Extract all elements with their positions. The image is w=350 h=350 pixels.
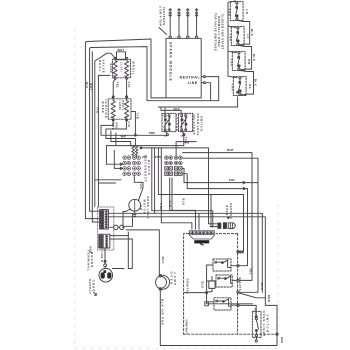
wire : L4 step <box>161 148 192 229</box>
wire : ground dashed bottom <box>184 333 276 335</box>
wire : relay left bus <box>207 265 253 304</box>
svg-text:TAN: TAN <box>229 59 233 67</box>
svg-text:IGNITOR: IGNITOR <box>104 100 108 119</box>
svg-text:PRP: PRP <box>149 131 155 135</box>
svg-text:6A: 6A <box>180 134 183 137</box>
connector : terminal board upper block <box>100 210 109 229</box>
svg-text:OVEN: OVEN <box>225 205 229 216</box>
svg-text:RR: RR <box>247 59 251 65</box>
wire : zigzag feed to WHT box <box>95 53 117 206</box>
svg-text:YEL: YEL <box>115 82 119 89</box>
wire : black loop 3 <box>239 70 253 95</box>
svg-text:GRN/WHT: GRN/WHT <box>185 320 188 335</box>
cable : ribbon black bar <box>194 240 209 243</box>
wire : ignitor pin lead 3 <box>187 9 189 36</box>
svg-text:UNLOCKED: UNLOCKED <box>192 114 196 136</box>
resistor : bake/broil ignitors box <box>108 99 131 119</box>
wire : RED zigzag <box>239 293 277 305</box>
svg-text:BLK: BLK <box>252 54 256 62</box>
wire : relay outputs <box>231 266 237 306</box>
wire : feed to lock switches <box>161 107 181 113</box>
lamp : oven lamp <box>156 275 170 289</box>
wire : RF to black bus down <box>158 97 237 107</box>
wire : black loop 1 <box>237 20 249 45</box>
wire : ignitor pin lead 1 <box>169 9 171 36</box>
motor : door lock motor <box>129 199 141 211</box>
wire : humps line <box>110 226 123 228</box>
pin : spark module pin 1 <box>169 36 171 38</box>
wire : inner loop W2 <box>90 47 219 212</box>
wire : pink dotted frame bottom <box>76 347 278 349</box>
wire : staircase C <box>111 131 131 146</box>
wire : r4 <box>183 174 248 266</box>
wire : valve to ignitor right <box>126 79 128 96</box>
wire : staircase B WHT <box>106 121 135 146</box>
pin : neutral terminal <box>201 76 203 78</box>
connector : disconnect block left grid <box>123 156 141 176</box>
wire : WHT line to relay <box>183 153 252 281</box>
label : left wire colours <box>85 82 100 113</box>
wire : L3 step long <box>158 148 243 253</box>
svg-text:DUAL: DUAL <box>98 60 102 72</box>
svg-text:WHT: WHT <box>227 148 234 152</box>
svg-text:TAN: TAN <box>168 201 172 208</box>
wire : valve to ignitor left <box>113 79 115 96</box>
svg-text:CORD: CORD <box>92 280 96 293</box>
svg-text:BLK: BLK <box>85 82 89 89</box>
wire : board to cord <box>104 248 106 260</box>
wire : black loop 2 <box>238 45 251 70</box>
svg-text:TAN: TAN <box>183 140 189 144</box>
switch : door lock switch 2 <box>179 113 193 137</box>
svg-text:OVEN: OVEN <box>170 272 174 286</box>
wire : cord loop verticals <box>112 232 132 269</box>
wire : label arrow <box>159 28 167 35</box>
switch : door lock switch 1 <box>162 113 176 137</box>
wire : motor bottom mark <box>134 211 136 216</box>
svg-text:BLK OR PNK: BLK OR PNK <box>161 299 165 326</box>
svg-text:2 OR 4 TOP: 2 OR 4 TOP <box>159 6 163 26</box>
relay : relay K3 <box>214 298 231 310</box>
junction-box : WHT box <box>117 52 126 60</box>
svg-text:BROIL: BROIL <box>121 101 124 111</box>
pin : spark module pin 4 <box>195 36 197 38</box>
svg-text:TAN: TAN <box>155 155 161 159</box>
relay : relay K1 <box>213 259 231 271</box>
svg-text:TAN: TAN <box>96 107 100 114</box>
svg-text:CLOSED FOR START: CLOSED FOR START <box>220 14 224 50</box>
svg-text:LOCKED: LOCKED <box>175 115 179 133</box>
svg-text:TOP VALVE SWITCHES: TOP VALVE SWITCHES <box>213 13 217 51</box>
svg-text:RF: RF <box>248 84 252 89</box>
sensor : oven sensor <box>225 203 233 219</box>
wire : pink dotted frame right <box>277 205 279 348</box>
wire : motor loop left <box>123 209 133 226</box>
wire : pink dotted frame left <box>74 30 76 348</box>
svg-text:TAN: TAN <box>139 182 143 189</box>
wire : line to sensor <box>141 148 211 224</box>
junction-box : small connector <box>205 302 209 306</box>
switch : top valve switch RF <box>230 77 252 96</box>
wire : board line 2 <box>108 217 265 298</box>
pin : spark module pin 2 <box>178 36 180 38</box>
wire : ignitor pin lead 2 <box>178 9 180 36</box>
wire : staircase D TAN <box>106 133 183 146</box>
svg-text:LR: LR <box>245 9 249 14</box>
svg-text:WHT: WHT <box>117 48 124 52</box>
svg-text:TAN: TAN <box>228 34 232 42</box>
svg-text:YEL: YEL <box>249 268 253 275</box>
svg-text:SWITCH: SWITCH <box>199 116 203 131</box>
svg-text:TAN: TAN <box>230 84 234 92</box>
svg-text:BOARD: BOARD <box>90 252 94 268</box>
svg-text:BLK: BLK <box>142 156 147 159</box>
svg-text:PRP: PRP <box>159 204 163 211</box>
wire : ignitor pin lead 4 <box>196 9 198 36</box>
connector : terminal board enclosure <box>98 207 114 250</box>
pin : console terminals <box>237 251 239 253</box>
svg-text:MOTOR: MOTOR <box>143 200 147 215</box>
wire : board line 1 <box>108 213 262 292</box>
valve : dual valve (bake/broil coils) <box>112 59 130 78</box>
wire : tan drop right of ignitor <box>131 112 135 136</box>
wire : cord arrow <box>94 292 97 295</box>
pin : line terminal <box>201 82 203 84</box>
wire : TAN BLK pair down <box>170 178 172 211</box>
svg-text:SWITCH: SWITCH <box>265 315 269 334</box>
svg-text:VALVE: VALVE <box>101 60 105 74</box>
svg-text:TAN: TAN <box>229 178 235 182</box>
svg-text:WHT: WHT <box>161 257 164 265</box>
svg-text:WHT: WHT <box>89 83 93 91</box>
svg-text:SUPPLY: SUPPLY <box>88 279 92 295</box>
svg-text:RED: RED <box>267 295 271 302</box>
svg-text:VIO: VIO <box>127 82 131 88</box>
svg-text:BLK: BLK <box>200 282 204 289</box>
svg-text:SPARK MODULE: SPARK MODULE <box>168 42 172 82</box>
wire : tan stub up <box>176 142 196 156</box>
switch : top valve switch LF <box>228 27 250 46</box>
svg-text:DOOR LOCK: DOOR LOCK <box>196 114 200 137</box>
wire : left vertical 4 <box>91 52 93 222</box>
wire : BLK line to relay <box>183 158 258 292</box>
wire : r3 arrows <box>183 168 258 182</box>
svg-text:GRN: GRN <box>88 246 92 253</box>
wire : left turn stubs <box>95 180 121 183</box>
switch : top valve switch RR <box>229 52 251 71</box>
connector : disconnect block right grid <box>164 156 182 176</box>
label : disconnect block <box>142 155 161 183</box>
switch : top valve switch LR <box>227 2 249 21</box>
svg-text:LINE: LINE <box>188 81 198 85</box>
svg-text:BLK: BLK <box>260 283 264 290</box>
wire : sensor feed 2b <box>210 195 212 227</box>
svg-text:(3.6A): (3.6A) <box>120 62 123 72</box>
svg-text:NEUTRAL: NEUTRAL <box>180 75 201 79</box>
svg-text:RED: RED <box>280 337 283 344</box>
label : top valve switches normally open closed for start <box>213 13 224 51</box>
wire : grid feed arrows <box>106 145 122 165</box>
svg-text:CW: CW <box>139 206 142 211</box>
enclosure : control console dashed box <box>184 234 238 334</box>
svg-text:BLK: BLK <box>254 79 258 87</box>
op-box : spark module U1 <box>166 38 201 98</box>
svg-text:BLOCK: BLOCK <box>147 160 151 176</box>
wire : L1 step <box>152 148 213 227</box>
wire : outer white loop W1 <box>85 39 166 219</box>
wire : line loop <box>205 83 210 101</box>
svg-text:NORMALLY OPEN: NORMALLY OPEN <box>217 16 221 47</box>
wire : switch common bus <box>228 1 237 78</box>
svg-text:BLK: BLK <box>250 29 254 37</box>
wire : PRP staircase A <box>101 121 167 135</box>
wire : motor to grid TAN <box>134 176 143 201</box>
wire : neutral loop <box>205 77 218 101</box>
wire : left verticals into board <box>85 211 99 222</box>
switch : oven light switch <box>252 311 261 337</box>
svg-text:(GMR): (GMR) <box>118 101 121 111</box>
svg-text:LAMP: LAMP <box>173 273 177 287</box>
relay : relay K2 <box>216 275 232 287</box>
wire : to oven light switch <box>239 305 256 315</box>
svg-text:BLK: BLK <box>181 199 185 206</box>
svg-text:IGNITORS: IGNITORS <box>162 7 166 26</box>
wire : left vertical 5 <box>98 75 110 206</box>
wire : lamp to bottom <box>160 290 277 345</box>
svg-text:6A: 6A <box>164 134 167 137</box>
pin : spark module pin 3 <box>187 36 189 38</box>
wire : lamp feed <box>126 230 159 275</box>
label : 2 OR 4 TOP IGNITORS <box>159 6 167 26</box>
fuse : cavity fuse box <box>209 281 215 289</box>
svg-text:TAN: TAN <box>136 113 140 120</box>
svg-text:OVEN LIGHT: OVEN LIGHT <box>262 311 266 338</box>
connector : terminal board lower block <box>99 234 110 248</box>
svg-text:DOOR LOCK: DOOR LOCK <box>146 196 150 219</box>
wire : board lower feeds <box>110 236 133 239</box>
svg-text:L1 LINE N: L1 LINE N <box>100 247 103 263</box>
wire : L2 step <box>155 148 199 229</box>
plug : supply cord <box>99 268 113 282</box>
connector : control board connector <box>189 231 214 239</box>
svg-text:WHT: WHT <box>121 136 127 139</box>
svg-text:BROIL: BROIL <box>131 62 135 76</box>
wire : twisted pair <box>132 146 135 155</box>
svg-text:VIO: VIO <box>127 122 131 128</box>
svg-text:BAKE: BAKE <box>109 64 113 74</box>
